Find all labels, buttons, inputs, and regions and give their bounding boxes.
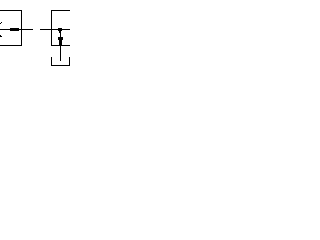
wire: main horizontal run, left segment [0,29,33,30]
right box U2 bottom edge [51,45,70,46]
node junction dot on wire in right box [58,28,62,31]
left box U1 bottom edge [0,45,22,46]
wire: main horizontal run, right segment after dash gap [40,29,70,30]
left box U1 top edge [0,10,22,11]
arrowhead barb upper (clipped at left edge) [1,22,2,23]
background [0,0,70,70]
right box U2 left edge [51,10,52,46]
socket bracket right side (clipped at right edge) [69,57,70,66]
socket bracket left side [51,57,52,66]
left box U1 right edge [21,10,22,46]
right box U2 top edge [51,10,70,11]
wire: thick lead from crossbar to box bottom [59,40,62,45]
socket bracket bottom [51,65,70,66]
arrowhead barb lower (clipped at left edge) [0,35,1,36]
component body (thick bar) on wire inside left box [10,28,19,31]
wire: stub down from junction [60,33,61,37]
tap crossbar [58,37,63,40]
wire: drop line below right box [60,46,61,61]
